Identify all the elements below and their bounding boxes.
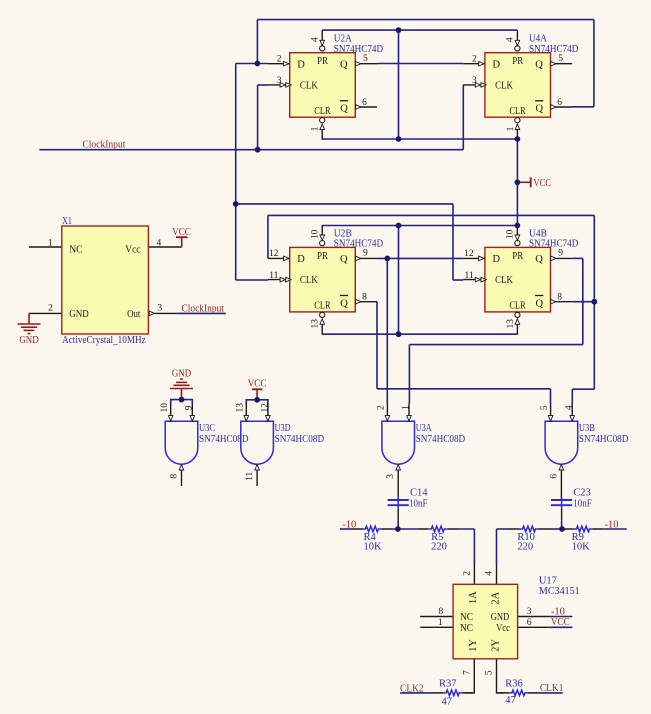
- svg-text:7: 7: [462, 670, 472, 675]
- svg-text:ClockInput: ClockInput: [182, 303, 224, 314]
- svg-text:10: 10: [160, 403, 170, 413]
- svg-text:SN74HC74D: SN74HC74D: [334, 239, 384, 250]
- svg-text:X1: X1: [62, 216, 72, 227]
- svg-text:U2A: U2A: [334, 34, 352, 45]
- svg-text:NC: NC: [69, 244, 82, 255]
- svg-text:-10: -10: [551, 606, 565, 617]
- svg-text:-10: -10: [605, 520, 619, 531]
- svg-text:13: 13: [311, 319, 321, 329]
- svg-text:SN74HC74D: SN74HC74D: [529, 44, 579, 55]
- svg-text:2A: 2A: [490, 591, 501, 604]
- svg-text:R36: R36: [505, 679, 523, 690]
- svg-text:9: 9: [558, 249, 563, 259]
- svg-text:VCC: VCC: [248, 379, 267, 390]
- svg-text:D: D: [297, 254, 305, 265]
- svg-text:220: 220: [431, 542, 447, 553]
- svg-text:U3A: U3A: [416, 423, 432, 434]
- svg-text:U3B: U3B: [579, 423, 595, 434]
- svg-text:GND: GND: [172, 368, 192, 379]
- svg-text:GND: GND: [491, 612, 510, 623]
- svg-text:2: 2: [277, 54, 282, 64]
- svg-text:1: 1: [48, 238, 53, 248]
- svg-text:VCC: VCC: [551, 617, 570, 628]
- svg-text:13: 13: [506, 319, 516, 329]
- svg-text:12: 12: [269, 249, 279, 259]
- svg-text:9: 9: [363, 249, 368, 259]
- svg-text:2: 2: [463, 571, 473, 576]
- svg-text:CLK2: CLK2: [400, 683, 424, 694]
- svg-text:10nF: 10nF: [573, 498, 592, 509]
- svg-text:U4A: U4A: [529, 34, 547, 45]
- svg-text:3: 3: [277, 76, 282, 86]
- svg-text:12: 12: [464, 249, 474, 259]
- svg-text:1: 1: [401, 405, 411, 410]
- svg-text:VCC: VCC: [172, 227, 191, 238]
- svg-text:6: 6: [527, 618, 532, 628]
- svg-text:12: 12: [260, 403, 270, 413]
- svg-text:2: 2: [48, 303, 53, 313]
- svg-text:GND: GND: [19, 335, 39, 346]
- svg-text:3: 3: [386, 474, 396, 479]
- svg-text:Q: Q: [340, 254, 348, 265]
- svg-text:8: 8: [439, 607, 444, 617]
- svg-text:SN74HC08D: SN74HC08D: [416, 434, 466, 445]
- svg-text:CLR: CLR: [510, 301, 526, 312]
- svg-text:CLR: CLR: [314, 106, 330, 117]
- svg-text:Vcc: Vcc: [496, 623, 510, 634]
- svg-text:ClockInput: ClockInput: [82, 140, 125, 151]
- svg-text:U3D: U3D: [275, 423, 291, 434]
- svg-text:Q: Q: [340, 298, 348, 309]
- svg-text:Q: Q: [340, 60, 348, 71]
- svg-text:Q: Q: [536, 104, 544, 115]
- svg-text:3: 3: [472, 76, 477, 86]
- svg-text:-10: -10: [342, 520, 356, 531]
- svg-text:VCC: VCC: [533, 178, 551, 189]
- svg-text:3: 3: [157, 303, 162, 313]
- svg-text:Out: Out: [127, 309, 140, 320]
- svg-text:11: 11: [464, 271, 473, 281]
- svg-text:2: 2: [377, 405, 387, 410]
- svg-text:10: 10: [506, 229, 516, 239]
- svg-text:SN74HC74D: SN74HC74D: [529, 239, 579, 250]
- svg-text:10nF: 10nF: [409, 498, 428, 509]
- svg-text:8: 8: [362, 293, 367, 303]
- svg-text:PR: PR: [512, 251, 523, 262]
- svg-text:2: 2: [472, 54, 477, 64]
- svg-text:11: 11: [245, 471, 255, 480]
- svg-text:1: 1: [506, 126, 516, 131]
- svg-text:5: 5: [540, 405, 550, 410]
- svg-text:SN74HC08D: SN74HC08D: [579, 434, 629, 445]
- svg-text:8: 8: [170, 474, 180, 479]
- svg-text:CLK1: CLK1: [540, 683, 564, 694]
- svg-text:4: 4: [311, 37, 321, 42]
- svg-text:PR: PR: [317, 56, 328, 67]
- svg-text:Q: Q: [535, 60, 543, 71]
- svg-text:1Y: 1Y: [468, 639, 479, 652]
- svg-text:C23: C23: [573, 487, 591, 498]
- svg-text:CLK: CLK: [300, 81, 318, 92]
- svg-text:CLR: CLR: [314, 301, 330, 312]
- svg-text:6: 6: [557, 98, 562, 108]
- svg-text:PR: PR: [317, 251, 328, 262]
- svg-text:10K: 10K: [364, 542, 383, 553]
- svg-text:47: 47: [505, 695, 516, 706]
- svg-text:U2B: U2B: [334, 228, 352, 239]
- svg-text:1: 1: [311, 126, 321, 131]
- svg-text:4: 4: [565, 405, 575, 410]
- svg-text:U3C: U3C: [199, 423, 215, 434]
- svg-text:2Y: 2Y: [490, 639, 501, 652]
- svg-text:10: 10: [311, 229, 321, 239]
- svg-text:6: 6: [362, 98, 367, 108]
- svg-text:13: 13: [236, 403, 246, 413]
- svg-text:Q: Q: [535, 254, 543, 265]
- svg-text:Q: Q: [340, 104, 348, 115]
- svg-text:4: 4: [485, 571, 495, 576]
- svg-text:ActiveCrystal_10MHz: ActiveCrystal_10MHz: [62, 335, 146, 346]
- svg-text:Vcc: Vcc: [125, 244, 140, 255]
- svg-text:4: 4: [506, 37, 516, 42]
- svg-text:CLK: CLK: [300, 275, 318, 286]
- svg-text:9: 9: [185, 405, 195, 410]
- svg-text:PR: PR: [512, 56, 523, 67]
- svg-text:CLK: CLK: [495, 81, 513, 92]
- svg-text:1A: 1A: [468, 591, 479, 604]
- svg-text:C14: C14: [410, 487, 428, 498]
- svg-text:4: 4: [157, 238, 162, 248]
- svg-text:5: 5: [485, 670, 495, 675]
- svg-text:6: 6: [549, 474, 559, 479]
- svg-text:D: D: [493, 59, 501, 70]
- svg-text:3: 3: [527, 607, 532, 617]
- svg-text:R37: R37: [439, 679, 457, 690]
- svg-text:U4B: U4B: [529, 228, 547, 239]
- svg-text:MC34151: MC34151: [539, 586, 580, 597]
- svg-text:Q: Q: [536, 298, 544, 309]
- svg-text:220: 220: [517, 542, 533, 553]
- svg-text:11: 11: [269, 271, 278, 281]
- svg-text:NC: NC: [460, 623, 473, 634]
- svg-text:SN74HC74D: SN74HC74D: [334, 44, 384, 55]
- svg-text:GND: GND: [69, 309, 89, 320]
- svg-text:5: 5: [558, 54, 563, 64]
- svg-text:D: D: [493, 254, 501, 265]
- svg-text:5: 5: [363, 54, 368, 64]
- svg-text:D: D: [297, 59, 305, 70]
- svg-text:CLR: CLR: [510, 106, 526, 117]
- svg-text:NC: NC: [460, 612, 473, 623]
- svg-text:10K: 10K: [572, 542, 591, 553]
- svg-text:1: 1: [438, 618, 443, 628]
- svg-text:8: 8: [557, 293, 562, 303]
- svg-text:SN74HC08D: SN74HC08D: [275, 434, 325, 445]
- svg-text:CLK: CLK: [495, 275, 513, 286]
- svg-text:47: 47: [442, 696, 453, 707]
